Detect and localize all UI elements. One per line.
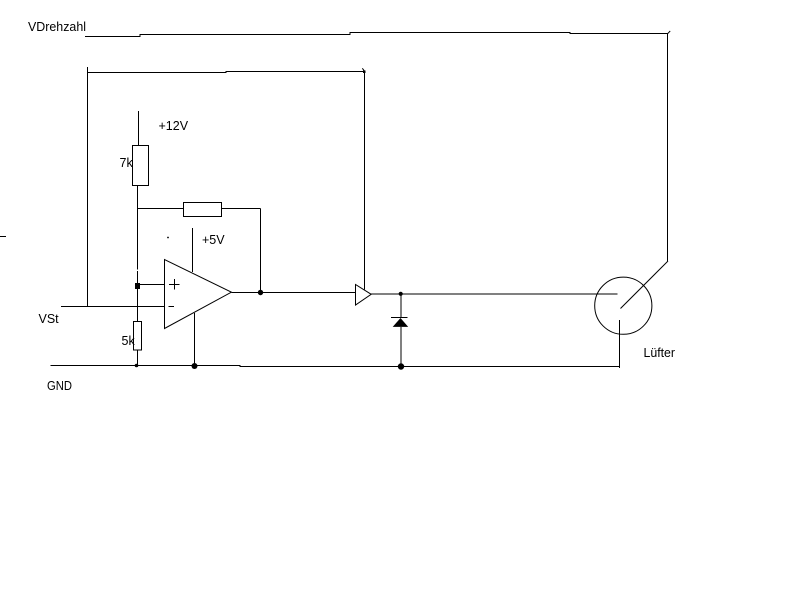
resistor R1 7k: [133, 146, 149, 186]
wire fan bottom to GND rail: [619, 320, 621, 368]
wire left vertical (x=87): [87, 67, 89, 307]
svg-text:Lüfter: Lüfter: [644, 346, 676, 360]
wire feedback right: [222, 208, 261, 210]
wire corner tick top right: [668, 31, 671, 34]
wire vertical drop to buffer (x=364): [364, 72, 366, 290]
junction R3/GND: [135, 364, 139, 368]
wire corner hook at x=364: [362, 68, 364, 71]
diode D1 cathode bar: [391, 317, 408, 319]
svg-text:VDrehzahl: VDrehzahl: [28, 20, 86, 34]
op-amp plus input mark: [169, 279, 180, 290]
svg-text:GND: GND: [47, 379, 72, 393]
resistor R3 5k: [134, 322, 142, 351]
wire op-amp ground pin: [194, 313, 196, 366]
wire divider node lower piece: [137, 271, 139, 322]
buffer U2: [356, 285, 372, 306]
wire second horizontal (feedback top run): [87, 72, 365, 73]
wire VSt to minus input: [61, 306, 164, 308]
op-amp U1: [165, 260, 232, 329]
wire diagonal into fan: [621, 261, 669, 309]
wire left margin tick: [0, 236, 6, 238]
wire buffer output to fan: [371, 293, 617, 295]
wire R3 bottom to GND: [137, 350, 139, 366]
svg-text:+5V: +5V: [202, 233, 225, 247]
junction diode/GND: [398, 363, 404, 369]
wire feedback left: [138, 208, 184, 210]
junction output/feedback: [258, 290, 263, 295]
wire feedback vertical to output: [260, 209, 262, 293]
op-amp minus input mark: [169, 306, 175, 308]
diode D1 body: [393, 318, 409, 327]
wire VDrehzahl net (top horizontal): [85, 33, 668, 37]
junction op-amp ground pin: [192, 363, 198, 369]
motor M1 fan circle: [595, 277, 652, 334]
wire op-amp output: [231, 292, 355, 294]
wire +12V stub: [138, 111, 140, 146]
svg-text:VSt: VSt: [39, 312, 60, 326]
junction divider node (square): [135, 283, 140, 289]
wire GND rail: [51, 366, 620, 367]
wire R1 bottom to divider node: [137, 186, 139, 270]
svg-text:7k: 7k: [120, 156, 134, 170]
junction buffer/diode: [399, 292, 403, 296]
wire diode anode drop: [400, 294, 402, 318]
wire divider to plus input: [140, 284, 164, 286]
svg-text:+12V: +12V: [159, 119, 189, 133]
wire +5V supply stub: [192, 228, 194, 272]
svg-text:5k: 5k: [122, 334, 136, 348]
wire right vertical drop to fan: [667, 34, 669, 262]
resistor R2 feedback: [184, 203, 222, 217]
stray mark near +5V: [167, 237, 169, 239]
wire diode to GND: [400, 327, 402, 367]
